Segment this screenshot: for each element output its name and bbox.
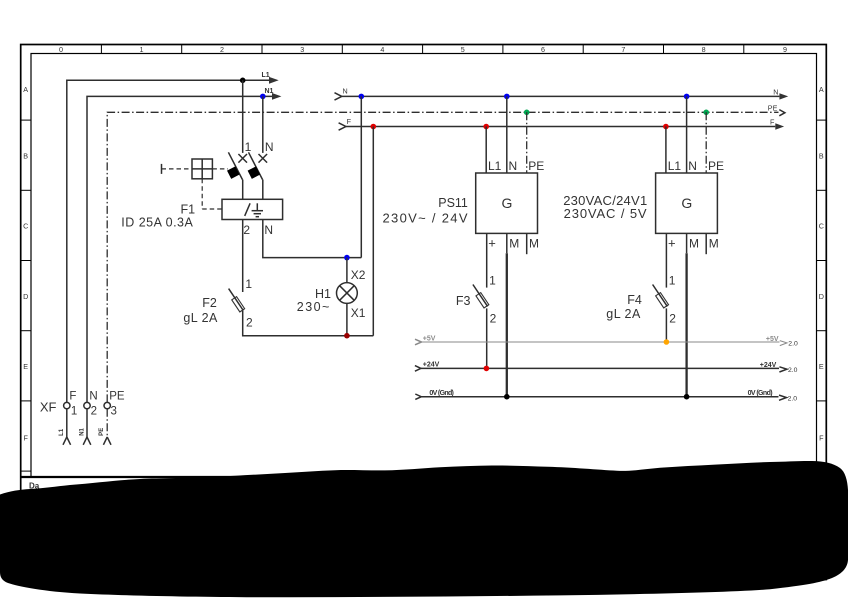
svg-text:+: + (488, 236, 496, 251)
svg-text:2: 2 (91, 405, 97, 417)
svg-text:N: N (509, 159, 518, 173)
svg-text:230VAC / 5V: 230VAC / 5V (564, 206, 647, 221)
svg-text:N: N (343, 86, 348, 95)
svg-text:E: E (23, 362, 28, 371)
svg-text:M: M (509, 236, 519, 250)
svg-text:N: N (89, 391, 97, 403)
svg-text:2: 2 (220, 45, 224, 54)
svg-text:L1: L1 (488, 159, 502, 173)
svg-text:6: 6 (541, 45, 545, 54)
svg-text:+5V: +5V (766, 336, 779, 343)
svg-text:8: 8 (702, 45, 706, 54)
svg-text:4: 4 (380, 45, 384, 54)
svg-text:1: 1 (140, 45, 144, 54)
svg-text:B: B (819, 152, 824, 161)
svg-text:A: A (23, 85, 28, 94)
svg-text:G: G (681, 195, 692, 211)
svg-text:2: 2 (490, 312, 497, 326)
svg-text:230~: 230~ (297, 300, 330, 314)
svg-text:F3: F3 (456, 294, 471, 308)
svg-text:1: 1 (245, 140, 252, 154)
svg-text:A: A (819, 85, 824, 94)
svg-text:F: F (347, 117, 352, 126)
svg-text:2.0: 2.0 (788, 395, 798, 402)
svg-text:gL 2A: gL 2A (606, 307, 641, 321)
svg-text:0V (Gnd): 0V (Gnd) (748, 390, 773, 397)
svg-text:2: 2 (669, 312, 676, 326)
svg-text:1: 1 (245, 277, 252, 291)
svg-text:M: M (689, 236, 699, 250)
svg-text:N1: N1 (79, 427, 85, 435)
svg-text:0V (Gnd): 0V (Gnd) (429, 390, 454, 397)
svg-text:C: C (23, 222, 28, 231)
svg-text:PE: PE (708, 159, 724, 173)
svg-text:3: 3 (300, 45, 304, 54)
svg-text:L1: L1 (59, 428, 65, 436)
svg-text:L1: L1 (262, 72, 270, 79)
svg-text:PE: PE (768, 104, 778, 113)
svg-text:PE: PE (109, 391, 125, 403)
svg-text:X1: X1 (351, 306, 366, 320)
svg-text:PE: PE (528, 159, 544, 173)
svg-text:F2: F2 (202, 296, 217, 310)
svg-text:N: N (688, 159, 697, 173)
svg-text:D: D (23, 292, 28, 301)
svg-text:2: 2 (243, 223, 250, 237)
svg-text:2.0: 2.0 (788, 341, 798, 348)
svg-text:F: F (24, 434, 29, 443)
svg-text:M: M (709, 236, 719, 250)
svg-text:F: F (770, 118, 775, 127)
svg-text:N1: N1 (265, 88, 274, 95)
svg-text:+24V: +24V (760, 362, 777, 369)
svg-text:F: F (69, 391, 76, 403)
svg-text:1: 1 (489, 274, 496, 288)
svg-text:E: E (819, 362, 824, 371)
svg-text:M: M (529, 236, 539, 250)
svg-text:gL 2A: gL 2A (183, 311, 218, 325)
svg-text:L1: L1 (668, 159, 682, 173)
svg-text:5: 5 (461, 45, 465, 54)
svg-text:F: F (819, 434, 824, 443)
svg-text:G: G (502, 195, 513, 211)
svg-text:F4: F4 (627, 293, 642, 307)
svg-text:+24V: +24V (423, 362, 440, 369)
svg-text:0: 0 (59, 45, 63, 54)
svg-text:N: N (265, 140, 274, 154)
svg-text:N: N (773, 88, 778, 97)
svg-text:230V~ / 24V: 230V~ / 24V (383, 210, 468, 225)
svg-text:+5V: +5V (423, 335, 436, 342)
svg-text:PE: PE (99, 428, 105, 436)
svg-text:N: N (264, 223, 273, 237)
svg-text:PS11: PS11 (438, 196, 468, 210)
svg-text:D: D (819, 292, 824, 301)
svg-text:7: 7 (621, 45, 625, 54)
svg-text:X2: X2 (351, 268, 366, 282)
svg-text:3: 3 (111, 405, 117, 417)
svg-text:1: 1 (71, 405, 77, 417)
svg-text:2: 2 (246, 316, 253, 330)
svg-text:B: B (23, 152, 28, 161)
svg-text:1: 1 (669, 274, 676, 288)
svg-text:XF: XF (40, 400, 57, 415)
svg-text:+: + (668, 236, 676, 251)
svg-text:2.0: 2.0 (788, 367, 798, 374)
svg-text:9: 9 (783, 45, 787, 54)
svg-text:C: C (819, 222, 824, 231)
svg-text:ID 25A 0.3A: ID 25A 0.3A (121, 216, 193, 230)
svg-text:F1: F1 (181, 203, 196, 217)
